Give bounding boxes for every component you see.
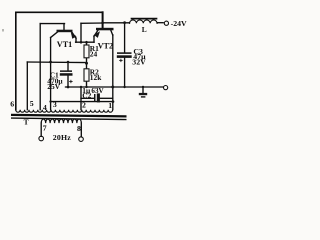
svg-text:2: 2 bbox=[82, 101, 86, 110]
svg-text:5: 5 bbox=[30, 99, 34, 108]
svg-text:3: 3 bbox=[53, 100, 57, 109]
svg-text:-24V: -24V bbox=[171, 19, 187, 28]
svg-text:6: 6 bbox=[10, 100, 14, 109]
svg-text:12k: 12k bbox=[90, 73, 102, 82]
svg-text:24: 24 bbox=[90, 50, 98, 59]
svg-text:7: 7 bbox=[43, 123, 47, 132]
svg-text:4: 4 bbox=[43, 103, 47, 112]
svg-text:C2: C2 bbox=[82, 91, 91, 100]
svg-text:8: 8 bbox=[77, 124, 81, 133]
svg-text:32V: 32V bbox=[132, 57, 146, 66]
svg-text:20Hz: 20Hz bbox=[53, 133, 71, 142]
svg-text:25V: 25V bbox=[47, 82, 60, 91]
svg-text:VT1: VT1 bbox=[57, 40, 72, 49]
svg-text:1: 1 bbox=[108, 101, 112, 110]
svg-text:T: T bbox=[24, 117, 29, 126]
svg-text:L: L bbox=[142, 25, 147, 34]
svg-text:63V: 63V bbox=[91, 87, 104, 95]
svg-text:VT2: VT2 bbox=[98, 41, 113, 50]
